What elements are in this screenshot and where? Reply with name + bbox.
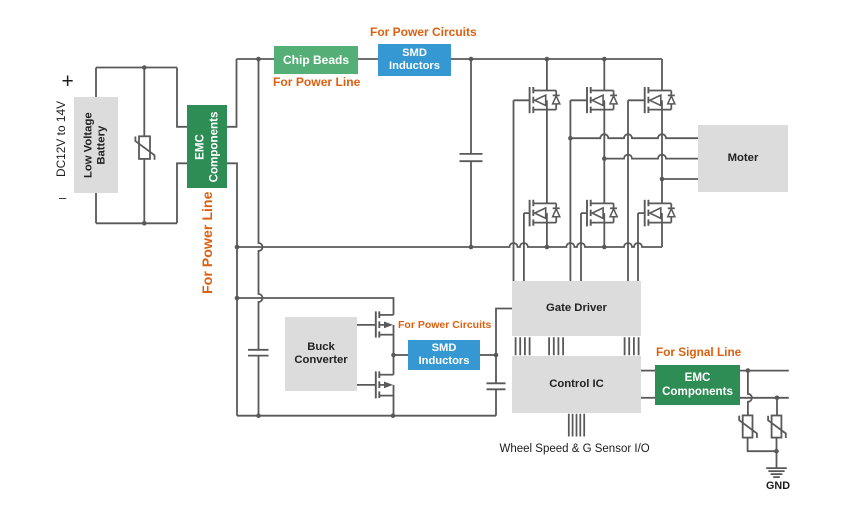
wire drain B from top rail xyxy=(603,59,605,91)
wire filter cap 1 upper (hops rails) xyxy=(259,59,263,350)
transistor Q1 (high-side A) xyxy=(530,87,560,113)
wire mid ground rail (hops gate lines) xyxy=(237,243,662,247)
label battery plus terminal xyxy=(62,70,74,94)
SMD inductors block L2 xyxy=(408,340,480,370)
varistor RV1 diagonal xyxy=(135,137,154,160)
wire Q8 drain to SMD node xyxy=(393,355,395,375)
label DC12V to 14V xyxy=(54,100,68,176)
wire phase node A xyxy=(546,110,548,204)
wire phase node B xyxy=(603,110,605,204)
wire source C to ground rail xyxy=(661,223,663,247)
wire EMC2 lower output xyxy=(740,397,789,399)
node junction SMD2 input xyxy=(391,353,396,358)
wire cap3 lower to ground rail xyxy=(495,389,497,415)
transistor Q6 (low-side C) xyxy=(645,200,675,227)
node junction phase rail C xyxy=(660,177,665,182)
wire source A to ground rail xyxy=(546,223,548,247)
wire varistor top lead xyxy=(143,68,145,137)
varistor RV2 body xyxy=(743,415,753,437)
node junction SMD2 output / cap3 xyxy=(494,353,499,358)
label For Power Line (under chip beads) xyxy=(273,75,360,89)
wire control IC to EMC2 upper xyxy=(641,370,655,372)
transistor Q7 (buck high) xyxy=(376,311,394,337)
wire SMD2 input xyxy=(394,354,409,356)
wire top power rail xyxy=(237,58,663,60)
wire Q7 source to SMD node xyxy=(393,325,395,355)
capacitor C3 plates xyxy=(487,383,506,389)
node junction phase rail B xyxy=(602,156,607,161)
wire gate Q7 from buck converter xyxy=(357,324,376,326)
varistor RV1 body xyxy=(139,136,150,159)
transistor Q2 (low-side A) xyxy=(530,200,560,227)
transistor Q3 (high-side B) xyxy=(587,87,617,113)
EMC components block U-EMC2 (signal line) xyxy=(655,365,740,405)
wire drain C drop xyxy=(661,59,663,91)
capacitor C1 plates xyxy=(248,350,269,356)
node junction signal lower / varistor 2 xyxy=(775,396,780,401)
label For Signal Line xyxy=(656,345,741,359)
chip beads block FB1 xyxy=(274,46,358,74)
wire battery top vertical xyxy=(95,68,97,98)
bus gate-driver/control-IC group 2 xyxy=(549,337,563,355)
node junction battery-/varistor xyxy=(142,221,147,226)
wire buck input rail xyxy=(237,298,394,315)
wire gate Q6 xyxy=(638,213,645,281)
label Wheel Speed and G Sensor IO xyxy=(500,443,650,455)
node junction mid rail / low source B xyxy=(602,245,607,250)
gate driver block U3 xyxy=(512,281,641,336)
varistor RV3 diagonal xyxy=(768,416,786,438)
wire node to gate driver input xyxy=(496,309,512,356)
node junction gnd drop / buck rail xyxy=(235,296,240,301)
wire varistor 2 bottom lead xyxy=(776,438,778,469)
buck converter block U2 xyxy=(285,317,357,391)
wire motor phase rail A (hops B,C columns) xyxy=(570,134,698,138)
bus gate-driver/control-IC group 3 xyxy=(625,337,639,355)
node junction signal upper / varistor 1 xyxy=(746,368,751,373)
wire battery+ to EMC1 input xyxy=(177,68,187,127)
node junction cap1 / bottom rail xyxy=(256,413,261,418)
node junction battery+/varistor xyxy=(142,65,147,70)
node junction top rail / drain B xyxy=(602,57,607,62)
varistor RV3 body xyxy=(772,416,782,438)
wire filter cap 1 lower xyxy=(258,356,260,416)
wire gate Q3 xyxy=(570,100,587,281)
wire gate Q1 xyxy=(514,100,530,281)
transistor Q5 (high-side C) xyxy=(645,87,675,113)
node junction top rail / DC link cap xyxy=(469,57,474,62)
wire source B to ground rail xyxy=(603,223,605,247)
wire phase node C xyxy=(661,110,663,204)
wire drain A from top rail xyxy=(546,59,548,91)
wire varistor bottom lead xyxy=(143,159,145,223)
node junction mid rail / cap2 xyxy=(469,245,474,250)
wire gate Q4 xyxy=(581,213,587,281)
label For Power Circuits (top) xyxy=(370,25,477,39)
node junction gnd drop / mid rail xyxy=(235,245,240,250)
EMC components block U-EMC1 (power line) xyxy=(187,105,227,188)
wire battery bottom vertical xyxy=(95,193,97,223)
wire motor phase rail B (hops C column) xyxy=(604,155,698,159)
bus gate-driver/control-IC group 1 xyxy=(516,337,530,355)
wire battery top rail xyxy=(96,67,177,69)
label battery minus terminal xyxy=(59,190,66,205)
wire EMC2 upper output xyxy=(740,370,789,372)
wire varistor 2 top lead xyxy=(776,398,778,416)
wire gate Q2 xyxy=(524,213,530,281)
wire varistor 1 bottom lead xyxy=(748,438,777,452)
wire control IC to EMC2 lower xyxy=(641,397,655,399)
node junction bottom rail / buck source xyxy=(391,413,396,418)
wire battery bottom rail xyxy=(96,222,177,224)
SMD inductors block L1 xyxy=(378,44,451,76)
label For Power Circuits (buck) xyxy=(398,319,491,331)
wire cap3 upper xyxy=(495,355,497,383)
wire SMD2 output xyxy=(480,354,496,356)
wire battery- to EMC1 input xyxy=(177,163,187,223)
label GND xyxy=(766,480,790,492)
wire bottom ground rail xyxy=(237,415,496,417)
node junction top rail / filter cap 1 xyxy=(256,57,261,62)
node junction phase rail A xyxy=(568,136,573,141)
wire gate Q8 from buck converter xyxy=(357,384,376,386)
wire EMC1 upper output riser xyxy=(227,59,237,127)
capacitor C2 plates xyxy=(460,154,483,161)
label For Power Line (vertical) xyxy=(200,191,216,293)
control IC block U4 xyxy=(512,356,641,413)
wire DC link cap upper xyxy=(470,59,472,154)
varistor RV2 diagonal xyxy=(739,416,757,438)
wire motor phase rail C xyxy=(662,178,698,180)
wire DC link cap lower xyxy=(470,161,472,247)
motor block M1 xyxy=(698,125,788,192)
ground symbol GND xyxy=(766,468,787,477)
transistor Q8 (buck low) xyxy=(376,371,394,398)
node junction mid rail / low source A xyxy=(545,245,550,250)
node junction ground tie xyxy=(774,449,779,454)
node junction top rail / drain A xyxy=(545,57,550,62)
battery box Low Voltage Battery xyxy=(74,97,118,193)
wire gate Q5 xyxy=(628,100,645,281)
transistor Q4 (low-side B) xyxy=(587,200,617,227)
wire EMC1 lower output drop xyxy=(227,163,237,415)
wire varistor 1 top lead (hops lower wire) xyxy=(748,371,752,416)
bus sensor I/O lines xyxy=(569,414,584,437)
wire Q8 source to ground rail xyxy=(393,385,395,416)
